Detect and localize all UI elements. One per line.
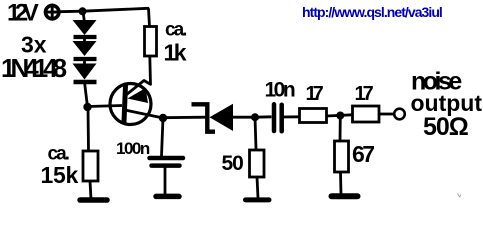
resistor R1 1k xyxy=(145,27,157,57)
diode D3 1N4148 xyxy=(73,64,97,83)
diode D1 1N4148 xyxy=(73,20,97,42)
wire 17b to output xyxy=(379,113,394,116)
wire collector node down to 100n xyxy=(162,118,164,156)
svg-text:15k: 15k xyxy=(41,162,79,188)
wire diode chain stem xyxy=(83,11,84,21)
wire node to 10n xyxy=(255,115,272,118)
resistor R4 17 xyxy=(300,109,327,123)
capacitor C1 100n xyxy=(150,158,184,166)
transistor Q1 xyxy=(110,81,163,125)
wire top rail from plus to 1k xyxy=(60,8,148,11)
output terminal circle xyxy=(394,109,405,120)
node junction top of diode chain xyxy=(79,7,87,15)
wire 1k top xyxy=(149,9,150,28)
diode D2 1N4148 xyxy=(73,41,97,64)
wire collector node to zener xyxy=(163,116,206,119)
svg-text:50Ω: 50Ω xyxy=(423,113,469,141)
node 67 junction xyxy=(336,112,344,120)
svg-text:1k: 1k xyxy=(164,40,187,66)
resistor R3 50 xyxy=(250,150,265,177)
ground under 67 xyxy=(332,193,358,199)
svg-text:50: 50 xyxy=(222,152,244,175)
wire 15k to ground xyxy=(90,181,91,199)
svg-text:http://www.qsl.net/va3iul: http://www.qsl.net/va3iul xyxy=(302,4,442,20)
wire 100n to ground xyxy=(164,166,167,194)
ground under 15k xyxy=(80,197,107,203)
wire diode chain to base node xyxy=(85,82,88,107)
zener diode D4 xyxy=(192,104,234,132)
svg-text:ca.: ca. xyxy=(165,20,186,41)
capacitor C2 10n xyxy=(274,104,282,131)
wire 50 to ground xyxy=(257,177,258,198)
wire zener to 50 node xyxy=(233,116,255,119)
wire emitter to 1k xyxy=(148,56,151,85)
node base junction xyxy=(83,103,91,111)
wire node down to 50 xyxy=(255,117,256,149)
ground under 100n xyxy=(156,194,179,200)
node collector junction xyxy=(159,114,167,122)
plus terminal symbol xyxy=(45,5,59,19)
wire node down to 67 xyxy=(339,116,342,142)
wire 10n to 17a xyxy=(282,115,299,118)
faint speck artifact xyxy=(458,194,462,198)
svg-text:10n: 10n xyxy=(265,79,295,102)
wire 17a to node xyxy=(327,115,353,116)
node 50/cap junction xyxy=(251,113,259,121)
wire base node to transistor xyxy=(88,106,123,107)
ground under 50 xyxy=(246,197,270,202)
resistor R6 67 xyxy=(335,141,349,172)
wire base node to 15k xyxy=(87,107,90,151)
resistor R2 15k xyxy=(83,151,98,181)
wire 67 to ground xyxy=(339,172,342,195)
svg-text:100n: 100n xyxy=(116,139,150,158)
svg-text:67: 67 xyxy=(352,141,374,167)
svg-text:1N4148: 1N4148 xyxy=(1,53,67,83)
resistor R5 17 xyxy=(353,106,380,122)
